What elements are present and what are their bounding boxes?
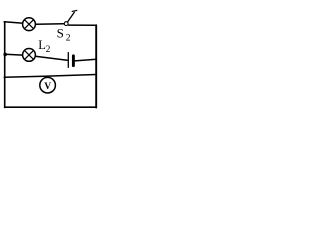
lamp (top, unlabeled) [23,18,36,31]
switch S2 lever [68,12,75,22]
wire voltmeter branch [4,75,96,78]
wire top border left segment [4,22,23,23]
switch S2 lever tip tick [72,10,77,11]
svg-text:2: 2 [66,33,71,43]
wire middle branch to battery [35,56,67,60]
wire top border middle segment [36,23,64,25]
svg-text:V: V [44,82,51,92]
wire right border [95,25,97,107]
battery long plate [67,53,69,68]
wire left border [4,22,6,108]
lamp L2 [23,49,36,62]
wire bottom border [5,106,97,108]
svg-text:2: 2 [46,45,51,55]
voltmeter V [40,77,56,93]
switch S2 contact circle [64,22,68,26]
wire middle branch left segment [5,53,23,56]
wire top border right segment [69,24,97,26]
node junction dot on left border [3,53,7,57]
svg-text:S: S [57,25,64,40]
battery short thick plate [72,56,75,66]
wire battery to right border [75,59,96,61]
